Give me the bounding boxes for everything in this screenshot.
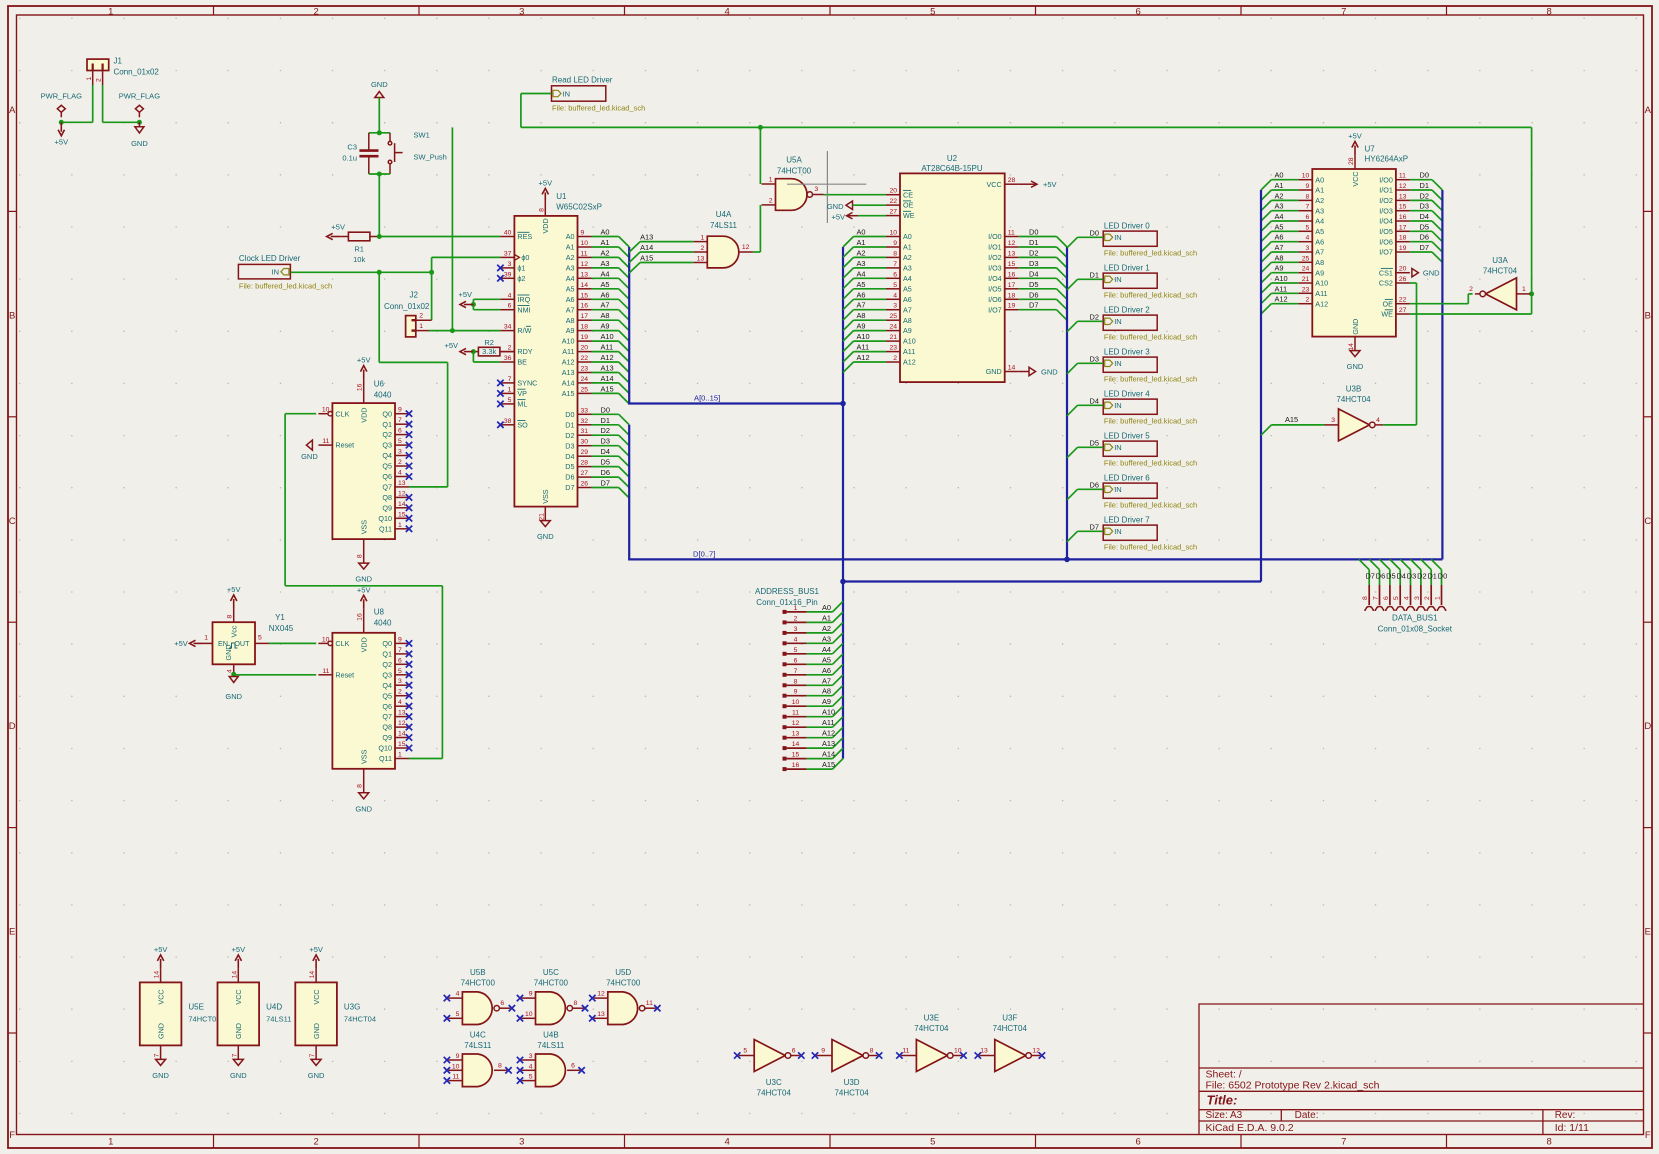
svg-text:U4C: U4C — [470, 1031, 486, 1040]
svg-text:I/O2: I/O2 — [988, 253, 1002, 262]
U7 pin A5 — [1298, 230, 1312, 232]
svg-text:A10: A10 — [1275, 274, 1288, 283]
svg-text:ML: ML — [517, 400, 527, 409]
svg-text:34: 34 — [504, 324, 512, 331]
svg-text:I/O6: I/O6 — [1379, 237, 1393, 246]
U2 pin A4 — [886, 277, 900, 279]
svg-text:IN: IN — [563, 89, 571, 98]
svg-text:9: 9 — [398, 407, 402, 414]
svg-text:D7: D7 — [565, 483, 574, 492]
svg-text:Q1: Q1 — [382, 650, 392, 659]
svg-text:E: E — [1645, 927, 1651, 938]
bus A vertical — [629, 247, 843, 404]
svg-text:A5: A5 — [1315, 227, 1324, 236]
svg-text:7: 7 — [398, 647, 402, 654]
svg-text:A4: A4 — [903, 274, 912, 283]
Y1 Vcc pin — [233, 609, 235, 623]
U7 GND pin — [1354, 337, 1356, 351]
svg-text:A1: A1 — [857, 238, 866, 247]
svg-text:8: 8 — [1547, 6, 1552, 17]
svg-text:VDD: VDD — [360, 408, 369, 423]
svg-text:File: buffered_led.kicad_sch: File: buffered_led.kicad_sch — [1104, 459, 1197, 468]
svg-text:A10: A10 — [562, 337, 575, 346]
svg-text:Q7: Q7 — [382, 712, 392, 721]
svg-text:14: 14 — [231, 971, 238, 979]
svg-text:U8: U8 — [374, 608, 385, 617]
svg-text:8: 8 — [870, 1048, 874, 1055]
DATA_BUS1 pin 7 (D6) — [1369, 559, 1379, 569]
svg-text:U3B: U3B — [1346, 385, 1362, 394]
resistor R2 3.3k — [478, 347, 500, 356]
svg-text:6: 6 — [500, 1000, 504, 1007]
svg-text:IN: IN — [1114, 233, 1122, 242]
U8 Q3 pin — [395, 674, 409, 676]
svg-text:13: 13 — [792, 731, 800, 738]
svg-text:Date:: Date: — [1295, 1110, 1319, 1121]
svg-text:D0: D0 — [1090, 228, 1099, 237]
svg-text:10: 10 — [792, 699, 800, 706]
svg-text:D7: D7 — [1090, 522, 1099, 531]
U1 pin D6 — [578, 476, 592, 478]
svg-text:Rev:: Rev: — [1555, 1110, 1576, 1121]
svg-text:21: 21 — [538, 513, 545, 521]
GND below U3G — [311, 1059, 321, 1065]
U7 VCC pin — [1354, 155, 1356, 169]
U2 pin A7 — [886, 309, 900, 311]
svg-text:14: 14 — [154, 971, 161, 979]
DATA_BUS1 pin 2 (D1) — [1421, 559, 1431, 569]
GND below U1 — [540, 521, 550, 527]
svg-text:D5: D5 — [1090, 438, 1099, 447]
svg-text:D3: D3 — [601, 437, 610, 446]
svg-text:D4: D4 — [601, 447, 610, 456]
U7 WE wire — [1410, 313, 1532, 315]
svg-text:38: 38 — [504, 418, 512, 425]
svg-text:13: 13 — [697, 256, 705, 263]
svg-text:CS1: CS1 — [1379, 268, 1393, 277]
U7 pin I/O4 — [1396, 220, 1410, 222]
svg-text:16: 16 — [1008, 271, 1016, 278]
svg-text:A2: A2 — [1275, 191, 1284, 200]
svg-text:D[0..7]: D[0..7] — [693, 549, 715, 558]
svg-text:2: 2 — [1424, 596, 1431, 600]
GND below U6 — [359, 563, 369, 569]
svg-text:SW1: SW1 — [414, 131, 430, 140]
+5V above U4D — [237, 959, 239, 969]
U1 pin D2 — [578, 434, 592, 436]
svg-text:2: 2 — [1306, 297, 1310, 304]
svg-text:11: 11 — [646, 1000, 653, 1007]
U8 Q0 pin — [395, 642, 409, 644]
U7 A bus entries — [1271, 179, 1298, 181]
svg-text:27: 27 — [581, 470, 589, 477]
svg-text:A2: A2 — [566, 253, 575, 262]
Y1 GND pin — [233, 664, 235, 674]
svg-text:A11: A11 — [1275, 284, 1288, 293]
svg-text:A6: A6 — [1315, 237, 1324, 246]
GND below Y1 — [229, 677, 238, 683]
svg-text:GND: GND — [355, 575, 372, 584]
svg-text:ADDRESS_BUS1: ADDRESS_BUS1 — [755, 587, 820, 596]
svg-text:D1: D1 — [1420, 181, 1429, 190]
svg-text:12: 12 — [398, 490, 406, 497]
+5V above U7 — [1354, 146, 1356, 156]
svg-text:0.1u: 0.1u — [342, 154, 357, 163]
U3G GND pin — [315, 1045, 317, 1059]
svg-text:VCC: VCC — [1351, 171, 1360, 186]
svg-text:21: 21 — [889, 334, 897, 341]
U2 pin A12 — [886, 361, 900, 363]
svg-text:A9: A9 — [822, 697, 831, 706]
U6 Q11 pin — [395, 528, 409, 530]
svg-text:D6: D6 — [601, 468, 610, 477]
GND below U7 — [1350, 351, 1360, 357]
U6 Q7 pin — [395, 486, 409, 488]
U7 pin A9 — [1298, 272, 1312, 274]
U7 pin A2 — [1298, 199, 1312, 201]
U1 pin RES — [500, 236, 514, 238]
svg-text:8: 8 — [1547, 1137, 1552, 1148]
svg-text:4: 4 — [529, 1063, 533, 1070]
svg-text:U3D: U3D — [844, 1078, 860, 1087]
U7 OE wire to U3A out — [1410, 303, 1468, 305]
U2 pin I/O0 — [1005, 236, 1019, 238]
U1 pin ML — [500, 403, 514, 405]
svg-text:A7: A7 — [1315, 248, 1324, 257]
svg-text:6: 6 — [398, 428, 402, 435]
svg-text:33: 33 — [581, 407, 589, 414]
svg-text:A2: A2 — [601, 248, 610, 257]
svg-text:A8: A8 — [1315, 258, 1324, 267]
svg-text:GND: GND — [355, 804, 372, 813]
svg-text:PWR_FLAG: PWR_FLAG — [41, 91, 82, 100]
svg-text:A13: A13 — [601, 364, 614, 373]
U6 VSS pin — [363, 539, 365, 563]
U6 Q7 wire — [409, 486, 448, 488]
svg-text:A4: A4 — [601, 269, 610, 278]
U2 pin A0 — [886, 236, 900, 238]
svg-text:D6: D6 — [565, 473, 574, 482]
IC U1 W65C02SxP — [514, 216, 577, 507]
svg-text:2: 2 — [1469, 286, 1473, 293]
U1 pin SYNC — [500, 382, 514, 384]
svg-text:D1: D1 — [1090, 270, 1099, 279]
svg-text:VSS: VSS — [360, 749, 369, 764]
svg-text:27: 27 — [1399, 307, 1407, 314]
svg-text:20: 20 — [1399, 266, 1407, 273]
svg-text:Conn_01x02: Conn_01x02 — [384, 302, 430, 311]
svg-text:CLK: CLK — [335, 639, 349, 648]
svg-text:D0: D0 — [601, 405, 610, 414]
DATA_BUS1 pin 4 (D3) — [1400, 559, 1410, 569]
U8 Q11 pin — [395, 758, 409, 760]
svg-text:3: 3 — [1414, 596, 1421, 600]
svg-text:3: 3 — [1331, 417, 1335, 424]
svg-text:VSS: VSS — [360, 520, 369, 535]
svg-text:A15: A15 — [1285, 415, 1298, 424]
svg-text:A7: A7 — [857, 301, 866, 310]
svg-text:Q6: Q6 — [382, 702, 392, 711]
wire D2 to LED Driver 2 — [1078, 320, 1104, 322]
A15 wire to U3B — [1271, 424, 1324, 426]
svg-text:I/O3: I/O3 — [1379, 206, 1393, 215]
svg-text:I/O7: I/O7 — [1379, 248, 1393, 257]
svg-text:Q4: Q4 — [382, 681, 392, 690]
svg-text:R1: R1 — [354, 245, 364, 254]
svg-text:74HCT04: 74HCT04 — [993, 1024, 1028, 1033]
svg-text:28: 28 — [1008, 177, 1016, 184]
svg-text:I/O0: I/O0 — [1379, 175, 1393, 184]
svg-text:A6: A6 — [857, 290, 866, 299]
svg-text:U3E: U3E — [924, 1014, 940, 1023]
svg-text:36: 36 — [504, 355, 512, 362]
svg-text:15: 15 — [398, 741, 406, 748]
wire D4 to LED Driver 4 — [1078, 404, 1104, 406]
DATA_BUS1 pin 6 (D5) — [1380, 559, 1390, 569]
U2 pin A11 — [886, 351, 900, 353]
svg-text:D2: D2 — [1420, 191, 1429, 200]
svg-text:74HCT00: 74HCT00 — [188, 1015, 220, 1024]
svg-text:4040: 4040 — [374, 618, 392, 627]
svg-text:23: 23 — [581, 366, 589, 373]
svg-text:ϕ1: ϕ1 — [517, 264, 525, 273]
power flag GND — [138, 112, 140, 117]
U6 Q0 pin — [395, 413, 409, 415]
U1 pin A2 — [578, 256, 592, 258]
svg-text:A6: A6 — [903, 295, 912, 304]
U7 IO wires to data bus — [1410, 179, 1432, 181]
svg-text:GND: GND — [230, 1071, 247, 1080]
U2 pin OE — [886, 204, 900, 206]
svg-text:Title:: Title: — [1207, 1093, 1238, 1108]
svg-text:4: 4 — [456, 991, 460, 998]
svg-text:GND: GND — [156, 1023, 165, 1039]
svg-text:Q0: Q0 — [382, 409, 392, 418]
svg-text:10: 10 — [525, 1011, 533, 1018]
svg-text:Q8: Q8 — [382, 723, 392, 732]
U1 pin PHI1 — [500, 267, 514, 269]
svg-text:Q0: Q0 — [382, 639, 392, 648]
U7 pin OE — [1396, 303, 1410, 305]
svg-text:B: B — [9, 310, 15, 321]
svg-text:16: 16 — [792, 762, 800, 769]
svg-text:A0: A0 — [1275, 171, 1284, 180]
svg-text:11: 11 — [792, 710, 799, 717]
U7 pin I/O6 — [1396, 241, 1410, 243]
IC U8 4040 — [332, 633, 395, 769]
svg-text:A9: A9 — [857, 322, 866, 331]
svg-text:7: 7 — [398, 417, 402, 424]
svg-text:LED Driver 5: LED Driver 5 — [1104, 432, 1150, 441]
U4A input 13 — [693, 262, 707, 264]
U1 pin D5 — [578, 466, 592, 468]
svg-text:5: 5 — [893, 282, 897, 289]
power unit U4D — [218, 982, 260, 1045]
svg-text:8: 8 — [1362, 596, 1369, 600]
svg-text:D0: D0 — [565, 410, 574, 419]
svg-text:D6: D6 — [1420, 233, 1429, 242]
svg-text:37: 37 — [504, 250, 512, 257]
svg-text:3: 3 — [398, 449, 402, 456]
svg-text:A1: A1 — [601, 238, 610, 247]
svg-text:9: 9 — [1306, 183, 1310, 190]
svg-text:GND: GND — [152, 1071, 169, 1080]
U1 pin A15 — [578, 392, 592, 394]
svg-text:C: C — [1644, 516, 1651, 527]
svg-text:A1: A1 — [822, 613, 831, 622]
svg-text:74LS11: 74LS11 — [710, 221, 738, 230]
bus D vertical — [629, 425, 1442, 560]
U6 Q1 pin — [395, 423, 409, 425]
svg-text:12: 12 — [792, 720, 800, 727]
svg-text:GND: GND — [1347, 362, 1364, 371]
svg-text:Q3: Q3 — [382, 670, 392, 679]
wire D7 to LED Driver 7 — [1078, 530, 1104, 532]
U8 Q1 pin — [395, 653, 409, 655]
svg-text:D2: D2 — [565, 431, 574, 440]
U5A input 2 — [762, 204, 776, 206]
U7 pin I/O7 — [1396, 251, 1410, 253]
svg-text:A15: A15 — [640, 254, 653, 263]
U1 pin VP — [500, 392, 514, 394]
+5V above U5E — [160, 959, 162, 969]
svg-text:28: 28 — [581, 460, 589, 467]
svg-text:Q8: Q8 — [382, 493, 392, 502]
U7 pin A3 — [1298, 210, 1312, 212]
svg-text:D2: D2 — [601, 426, 610, 435]
U6 Reset pin — [318, 444, 332, 446]
svg-text:+5V: +5V — [831, 212, 845, 221]
svg-text:GND: GND — [1351, 319, 1360, 335]
U2 pin A9 — [886, 330, 900, 332]
U1 pin A7 — [578, 309, 592, 311]
svg-text:A4: A4 — [857, 269, 866, 278]
svg-text:A10: A10 — [822, 708, 835, 717]
svg-text:74HCT04: 74HCT04 — [1483, 267, 1518, 276]
U5A input 1 — [762, 183, 776, 185]
IC U2 AT28C64B-15PU — [900, 173, 1005, 382]
svg-text:15: 15 — [1399, 204, 1407, 211]
U2 pin A10 — [886, 340, 900, 342]
power unit U3G — [295, 982, 337, 1045]
svg-text:A0: A0 — [822, 603, 831, 612]
svg-text:A3: A3 — [1275, 202, 1284, 211]
svg-text:+5V: +5V — [174, 639, 188, 648]
power unit U5E — [140, 982, 182, 1045]
svg-text:LED Driver 1: LED Driver 1 — [1104, 264, 1150, 273]
svg-text:I/O4: I/O4 — [988, 274, 1002, 283]
svg-text:LED Driver 7: LED Driver 7 — [1104, 516, 1150, 525]
GND at U6 Reset — [306, 440, 312, 450]
svg-text:D5: D5 — [1386, 572, 1395, 581]
svg-text:A3: A3 — [1315, 206, 1324, 215]
U7 pin A0 — [1298, 179, 1312, 181]
svg-text:D4: D4 — [1029, 269, 1038, 278]
svg-text:14: 14 — [1008, 364, 1016, 371]
svg-text:A14: A14 — [601, 374, 614, 383]
svg-text:IN: IN — [1114, 275, 1122, 284]
svg-text:4: 4 — [508, 292, 512, 299]
svg-text:+5V: +5V — [1348, 132, 1362, 141]
svg-text:12: 12 — [398, 720, 406, 727]
svg-text:6: 6 — [1136, 6, 1141, 17]
svg-text:WE: WE — [1381, 310, 1393, 319]
svg-text:21: 21 — [1302, 276, 1310, 283]
svg-text:D7: D7 — [601, 479, 610, 488]
svg-text:1: 1 — [108, 6, 113, 17]
svg-text:9: 9 — [529, 991, 533, 998]
svg-text:U4D: U4D — [266, 1003, 282, 1012]
svg-text:18: 18 — [1399, 235, 1407, 242]
svg-text:9: 9 — [456, 1053, 460, 1060]
oscillator Y1 NX045 — [213, 622, 256, 664]
svg-text:A3: A3 — [857, 259, 866, 268]
svg-text:A7: A7 — [566, 305, 575, 314]
svg-text:10: 10 — [322, 407, 330, 414]
svg-text:10: 10 — [452, 1063, 460, 1070]
svg-text:12: 12 — [597, 991, 605, 998]
svg-text:SW_Push: SW_Push — [414, 153, 447, 162]
U1 pin RDY — [500, 351, 514, 353]
svg-text:A10: A10 — [1315, 279, 1328, 288]
U1 address wires to bus A — [592, 236, 619, 238]
svg-text:11: 11 — [452, 1074, 459, 1081]
U1 pin PHI2 — [500, 277, 514, 279]
U1 pin A1 — [578, 246, 592, 248]
svg-text:3: 3 — [1306, 245, 1310, 252]
U5E GND pin — [160, 1045, 162, 1059]
svg-text:A9: A9 — [1275, 264, 1284, 273]
svg-text:9: 9 — [794, 689, 798, 696]
U2 pin A6 — [886, 298, 900, 300]
svg-text:CE: CE — [903, 190, 913, 199]
U5A output 3 — [813, 194, 824, 196]
svg-text:3: 3 — [815, 186, 819, 193]
svg-text:24: 24 — [889, 324, 897, 331]
svg-text:A6: A6 — [822, 666, 831, 675]
svg-text:14: 14 — [1348, 343, 1355, 351]
svg-text:2: 2 — [794, 615, 798, 622]
svg-text:14: 14 — [398, 501, 406, 508]
GND below U5E — [156, 1059, 166, 1065]
svg-text:22: 22 — [889, 198, 897, 205]
connector J1 — [87, 59, 109, 70]
ADDRESS_BUS1 pin 2 (A1) — [785, 621, 807, 623]
U1 pin A14 — [578, 382, 592, 384]
svg-text:12: 12 — [581, 261, 589, 268]
U8 Q11 wire — [409, 758, 442, 760]
U1 pin A10 — [578, 340, 592, 342]
svg-text:A2: A2 — [1315, 196, 1324, 205]
svg-text:A15: A15 — [562, 389, 575, 398]
svg-text:74HCT04: 74HCT04 — [344, 1015, 376, 1024]
svg-text:6: 6 — [571, 1062, 575, 1069]
svg-text:D4: D4 — [565, 452, 574, 461]
U3A output pin 2 — [1475, 293, 1480, 295]
svg-text:A7: A7 — [822, 676, 831, 685]
svg-text:31: 31 — [581, 428, 589, 435]
svg-text:File: buffered_led.kicad_sch: File: buffered_led.kicad_sch — [1104, 375, 1197, 384]
svg-text:A5: A5 — [601, 280, 610, 289]
svg-text:R/W: R/W — [517, 326, 531, 335]
svg-text:D1: D1 — [1029, 238, 1038, 247]
svg-text:U2: U2 — [947, 154, 958, 163]
svg-text:A0: A0 — [1315, 175, 1324, 184]
svg-text:A3: A3 — [601, 259, 610, 268]
svg-text:Read LED Driver: Read LED Driver — [552, 75, 613, 84]
svg-text:29: 29 — [581, 449, 589, 456]
svg-text:5: 5 — [398, 438, 402, 445]
